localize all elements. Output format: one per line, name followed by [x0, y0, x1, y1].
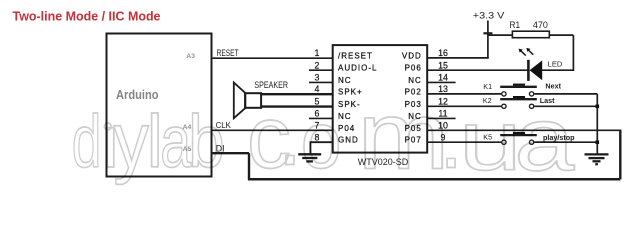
pin 16 wire VDD — [428, 57, 489, 59]
IC U1 WTV020-SD box — [333, 45, 428, 153]
wire R1 to corner — [549, 34, 573, 36]
svg-text:16: 16 — [438, 48, 448, 58]
wire K2 to bus — [534, 105, 597, 107]
svg-text:VDD: VDD — [402, 51, 422, 60]
pin 15 wire to LED — [428, 69, 528, 71]
pin 2 stub — [309, 69, 332, 71]
pin 12 wire to K2 — [428, 105, 501, 107]
wire K5 to bus — [534, 141, 597, 143]
power +3.3V stem — [487, 21, 489, 58]
svg-text:a: a — [514, 89, 575, 189]
Arduino U2 box — [107, 34, 212, 177]
svg-text:3: 3 — [315, 73, 320, 83]
wire to R1 — [488, 34, 513, 36]
svg-text:4: 4 — [315, 84, 320, 94]
svg-text:15: 15 — [438, 61, 448, 71]
wire CLK A4 to pin7 — [212, 129, 332, 131]
svg-text:/RESET: /RESET — [338, 51, 373, 60]
pin 14 stub — [428, 81, 456, 83]
IC pin labels right — [402, 51, 422, 144]
IC pin labels left — [338, 51, 377, 144]
pin 13 wire to K1 — [428, 93, 501, 95]
pin 3 stub — [309, 81, 332, 83]
junction node K2-bus — [596, 105, 600, 109]
wire DI vertical down — [248, 153, 250, 179]
wire pin10 P05 — [428, 129, 621, 131]
svg-text:d: d — [72, 100, 102, 183]
svg-text:u: u — [459, 95, 522, 188]
watermark diylab.com.ua — [72, 81, 575, 190]
svg-text:NC: NC — [338, 76, 352, 85]
wire bottom rail — [248, 178, 620, 181]
wire SPK- speaker to pin5 — [262, 105, 333, 107]
svg-text:Two-line Mode / IIC Mode: Two-line Mode / IIC Mode — [13, 8, 161, 23]
wire SPK+ speaker to pin4 — [262, 93, 333, 95]
ground symbol right — [585, 154, 609, 164]
svg-text:y: y — [114, 96, 150, 185]
svg-text:.: . — [278, 89, 301, 183]
LED emission arrow 1 — [520, 50, 533, 56]
speaker SP1 cone — [234, 83, 245, 119]
svg-text:+3.3 V: +3.3 V — [473, 10, 505, 21]
svg-text:o: o — [301, 96, 341, 185]
junction node K5-bus — [596, 140, 600, 144]
speaker SP1 magnet — [245, 93, 261, 108]
svg-text:470: 470 — [533, 20, 548, 31]
svg-text:LED: LED — [548, 59, 563, 68]
svg-text:a: a — [160, 100, 191, 183]
LED D1 cathode bar — [527, 60, 530, 81]
wire down to LED — [572, 35, 574, 70]
resistor R1 body — [512, 31, 549, 38]
pin numbers left — [315, 48, 320, 142]
wire RESET A3 to pin1 — [212, 57, 332, 59]
pin 8 stub GND — [310, 142, 332, 154]
button K1 — [500, 84, 537, 96]
pin numbers right — [438, 48, 448, 142]
wire LED anode — [542, 69, 575, 71]
svg-text:K1: K1 — [483, 82, 492, 91]
svg-text:b: b — [188, 100, 225, 182]
wire bus to ground — [596, 142, 598, 154]
wire K1 to bus — [534, 93, 597, 95]
svg-text:1: 1 — [315, 48, 320, 58]
svg-text:2: 2 — [315, 61, 320, 71]
svg-text:m: m — [358, 81, 450, 189]
pin 6 stub — [309, 117, 332, 119]
svg-text:A3: A3 — [186, 53, 195, 60]
button K5 — [500, 132, 537, 144]
wire DI A5 — [212, 152, 249, 154]
button K2 — [500, 96, 537, 108]
svg-text:R1: R1 — [510, 20, 521, 31]
pin 11 stub — [428, 117, 456, 119]
wire right riser to P05 — [619, 130, 621, 179]
wire bus verticals — [596, 94, 598, 142]
power +3.3V tick — [483, 32, 492, 34]
LED emission arrow 2 — [526, 48, 530, 52]
ground symbol at pin 8 — [298, 154, 321, 161]
svg-text:P06: P06 — [405, 64, 422, 73]
svg-text:RESET: RESET — [217, 48, 239, 58]
svg-text:AUDIO-L: AUDIO-L — [338, 64, 377, 73]
LED D1 triangle — [530, 60, 543, 80]
pin 9 wire to K5 — [428, 141, 501, 143]
